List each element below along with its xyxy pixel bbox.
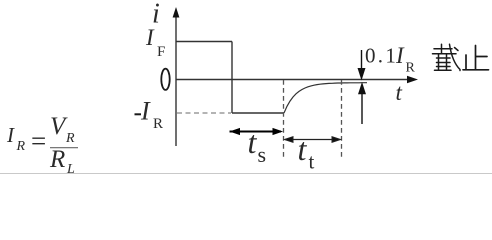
formula I_R = V_R / R_L	[6, 113, 78, 177]
bottom rule line	[0, 173, 492, 175]
svg-text:t: t	[396, 80, 403, 105]
svg-text:I: I	[395, 43, 405, 68]
Chinese character 止 (zhi) drawn as strokes	[463, 46, 489, 70]
down arrow marking 0.1 IR gap (above axis)	[358, 50, 365, 79]
svg-text:t: t	[248, 124, 258, 160]
label 0 at origin	[161, 69, 169, 90]
tt dimension arrow	[285, 137, 341, 143]
svg-text:s: s	[258, 142, 267, 167]
dashed -IR level from axis to pulse	[177, 112, 231, 114]
svg-text:F: F	[157, 44, 165, 60]
x axis (time t)	[176, 79, 410, 81]
y axis (current i)	[175, 12, 177, 146]
svg-text:I: I	[140, 97, 151, 126]
svg-text:=: =	[31, 126, 46, 156]
svg-text:L: L	[66, 162, 75, 177]
label -IR	[135, 113, 142, 115]
svg-text:t: t	[298, 131, 308, 167]
svg-text:R: R	[153, 116, 163, 132]
svg-text:I: I	[145, 25, 155, 50]
y axis arrowhead	[173, 7, 180, 18]
x axis arrowhead	[407, 76, 418, 84]
waveform: falling edge	[231, 42, 233, 114]
svg-text:R: R	[49, 146, 65, 173]
svg-text:R: R	[406, 61, 416, 76]
svg-text:t: t	[309, 150, 315, 174]
ts dimension arrow	[230, 129, 282, 135]
waveform: IF top level	[176, 41, 232, 43]
svg-text:0.1: 0.1	[365, 44, 398, 68]
svg-text:R: R	[65, 131, 75, 146]
waveform: recovery curve to 0.1 IR level	[284, 83, 367, 113]
svg-text:I: I	[6, 123, 15, 147]
dashed vertical at end of tt	[341, 80, 343, 158]
waveform: -IR bottom level	[232, 112, 284, 114]
dashed vertical at end of ts	[283, 80, 285, 158]
up arrow marking 0.1 IR gap (below, tip at residual level)	[359, 84, 366, 125]
svg-text:R: R	[16, 139, 26, 154]
Chinese character 截 (jie) drawn as strokes	[433, 44, 461, 70]
